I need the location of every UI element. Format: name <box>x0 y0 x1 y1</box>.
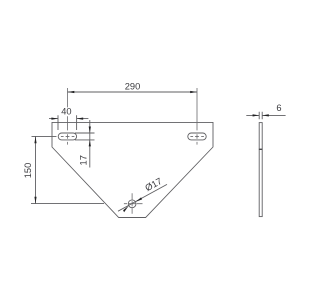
svg-text:17: 17 <box>79 155 89 165</box>
centerline horizontal right slot <box>190 135 204 137</box>
leader / diameter dimension D17 <box>118 184 167 211</box>
side view slot mark <box>259 148 263 150</box>
dimension 290 <box>68 91 198 93</box>
slot hole left (40x17 obround) <box>58 133 76 140</box>
extension lines 150 <box>31 136 104 203</box>
side view plate (thin rectangle) <box>259 123 263 217</box>
arrow upper right pointing at circle <box>136 197 143 202</box>
centerline horizontal hole <box>124 203 143 205</box>
centerline vertical hole <box>131 193 133 214</box>
svg-text:40: 40 <box>61 107 71 117</box>
extension lines 40 <box>58 115 77 130</box>
dimension 6 <box>246 112 285 120</box>
dimension 40 <box>49 115 88 130</box>
centerline vertical right slot + extension to 290 dim <box>196 88 198 145</box>
slot hole right (40x17 obround) <box>188 133 206 140</box>
svg-text:6: 6 <box>276 103 281 113</box>
svg-text:290: 290 <box>125 81 141 91</box>
svg-text:Ø17: Ø17 <box>143 176 163 193</box>
extension lines 6 <box>259 112 262 120</box>
plate outline (front view) <box>52 122 213 217</box>
arrow lower left pointing at circle <box>123 206 129 213</box>
centerline vertical left slot + extension to 290 dim <box>67 88 69 145</box>
dimension 150 <box>31 136 104 203</box>
hole D17 <box>128 200 136 208</box>
svg-text:150: 150 <box>23 163 33 179</box>
centerline horizontal left slot <box>61 135 75 137</box>
extension lines 17 (slot top/bottom extended) <box>75 133 95 140</box>
dimension 17 <box>75 120 95 168</box>
